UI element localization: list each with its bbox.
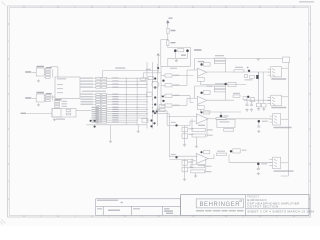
- wire ch3 out b: [226, 118, 271, 120]
- resistor bus row C2 B: [102, 111, 107, 113]
- wire bus row B1 a: [94, 96, 95, 98]
- wire matrix feed top: [103, 70, 159, 72]
- capacitor ch2 feedback C: [214, 86, 225, 89]
- wire bus row C6 b: [107, 119, 137, 121]
- transistor ch3 bias: [200, 111, 202, 113]
- wire bus row B1 b: [107, 96, 147, 98]
- frame zone number bottom 3: [91, 216, 93, 217]
- resistor ch1 series R out: [234, 70, 244, 72]
- value R32: [62, 106, 68, 107]
- bus junction: [147, 120, 148, 121]
- polarized cap lower a: [150, 119, 152, 121]
- resistor R201: [167, 28, 169, 33]
- frame zone letter left 3: [8, 93, 9, 95]
- label jack ch1: [271, 78, 286, 79]
- wire ch1 input stub b: [161, 84, 165, 86]
- wire lower link: [87, 124, 147, 126]
- frame zone number top 5: [158, 6, 160, 7]
- cap cluster left 2: [94, 120, 96, 122]
- polarized cap at bus y104.5: [154, 103, 156, 105]
- resistor R203: [178, 49, 184, 52]
- label ch1 input A: [173, 75, 179, 76]
- resistor bus row B2 B: [102, 99, 107, 101]
- frame zone tick bottom 7: [242, 215, 244, 217]
- resistor bus row C1 B: [102, 109, 107, 111]
- frame zone letter left 1: [8, 23, 9, 25]
- wire ch4 fb left: [191, 159, 193, 168]
- wire ch3 jack to bus: [281, 118, 289, 120]
- wire ch2 fb left leg: [194, 86, 196, 98]
- wire ch3 cap drop: [258, 123, 260, 127]
- frame zone number top 3: [91, 6, 93, 7]
- ground ch3 out: [257, 130, 260, 133]
- corner fold mark top-left: [2, 2, 6, 6]
- ground ch1 e2: [262, 108, 265, 111]
- resistor ch2 below: [224, 129, 234, 132]
- resistor bus row A0 A: [96, 77, 101, 79]
- mid bus junction: [136, 119, 139, 122]
- ground stage2: [37, 103, 40, 106]
- frame zone tick right 2: [309, 75, 311, 77]
- frame zone letter right 6: [309, 198, 310, 200]
- frame zone tick right 4: [309, 145, 311, 147]
- wire bus row B3 b: [107, 101, 147, 103]
- label ch4 cap: [261, 163, 267, 164]
- resistor R22 input stage 2: [46, 100, 51, 102]
- transistor Q202: [186, 49, 189, 52]
- value label bus row A0: [112, 77, 118, 78]
- wire ch4 lower in: [193, 160, 196, 162]
- bus junction: [147, 101, 148, 102]
- wire stage3 out: [76, 110, 92, 112]
- wire Q202 emitter: [187, 52, 189, 58]
- frame zone number top 4: [124, 6, 126, 7]
- wire ch1 drop a: [257, 72, 259, 75]
- wire bus row C6 a: [96, 119, 100, 121]
- resistor ch1 input B: [165, 84, 172, 87]
- wire bus row B2 b: [107, 98, 147, 100]
- value label bus row A1: [112, 80, 118, 81]
- label ch1 cluster: [245, 79, 253, 80]
- svg-text:SHEET 2 OF 4 SHEETS MARCH 13: SHEET 2 OF 4 SHEETS MARCH 13 1996: [247, 210, 314, 214]
- electrolytic cap ch1 input: [162, 79, 164, 81]
- wire bus row C3 b: [107, 113, 147, 115]
- resistor bus row B4 A: [96, 104, 101, 106]
- value label bus row C2: [112, 111, 118, 112]
- frame zone tick top 5: [175, 6, 177, 8]
- label R202: [171, 42, 176, 43]
- wire emitter rail: [168, 57, 188, 59]
- labels R10-R13: [46, 67, 52, 68]
- behringer registered mark: [240, 200, 242, 202]
- frame zone tick bottom 6: [209, 215, 211, 217]
- valve circle housing: [147, 92, 152, 96]
- frame zone number top 7: [225, 6, 227, 7]
- ground matrix 2: [137, 130, 140, 133]
- net label bus row A3 left: [81, 87, 94, 88]
- resistor ch2 mute load: [250, 98, 255, 102]
- checked cell text: [133, 208, 140, 209]
- op-amp ch1 IC1A: [197, 68, 207, 76]
- frame zone tick right 1: [309, 40, 311, 42]
- wire ch2 minus in: [187, 97, 197, 99]
- wire ch2 to amp plus: [172, 95, 190, 97]
- frame zone number top 1: [23, 6, 25, 7]
- mid bus junction: [125, 80, 128, 83]
- label ch3 chain b: [188, 134, 193, 135]
- wire bus row C2 a: [96, 111, 100, 113]
- wire ch4 jack to bus: [281, 162, 289, 164]
- wire ch3 fb left: [191, 119, 193, 131]
- op-amp ch4 IC2B: [196, 154, 208, 164]
- capacitor ch1 feedback C: [214, 58, 225, 61]
- resistor R32 mid stage: [55, 106, 60, 108]
- date cell value: [164, 210, 173, 211]
- wire supply vertical: [167, 25, 169, 28]
- resistor pair left of cap: [148, 77, 154, 80]
- wire ch4 out jog2: [228, 154, 230, 162]
- resistor R33: [66, 110, 71, 112]
- label ch2 input B: [173, 105, 179, 106]
- wire: [44, 68, 45, 70]
- net label bus row B4 left: [81, 104, 94, 105]
- value label bus row B4: [112, 104, 118, 105]
- label op-amp ch3: [198, 125, 205, 126]
- resistor bus lower: [142, 119, 148, 123]
- mute network ch1: [228, 82, 236, 86]
- wire input R: [32, 97, 37, 99]
- mid bus junction: [136, 106, 139, 109]
- wire trunk ch34 b: [168, 114, 170, 158]
- value label bus row B1: [112, 96, 118, 97]
- capacitor ch4 feedback C: [191, 170, 205, 173]
- wire ch2 minus jog: [186, 98, 188, 105]
- label ch4 input: [171, 154, 176, 155]
- transistor ch2 bias: [200, 92, 202, 94]
- mid bus junction: [125, 100, 128, 103]
- label ch1 series R: [235, 67, 243, 68]
- net label bus row B2 left: [81, 99, 94, 100]
- title text divider: [245, 195, 247, 216]
- label U1B: [37, 92, 45, 94]
- resistor bus row C3 A: [96, 113, 101, 115]
- net label bus row A1 left: [81, 80, 94, 81]
- frame zone number bottom 6: [192, 216, 194, 217]
- frame zone letter right 2: [309, 58, 310, 60]
- resistor bus row A0 B: [102, 77, 107, 79]
- label INPUT L: [25, 71, 31, 72]
- value label bus row C0: [112, 107, 118, 108]
- resistor ch2 mute load b: [243, 97, 247, 100]
- op-amp U1A body: [36, 68, 44, 76]
- transistor ch2 mute: [247, 96, 249, 98]
- resistor bus row C4 B: [102, 115, 107, 117]
- resistor ch1 bias: [204, 62, 211, 66]
- file name text outside frame top-right: [299, 1, 314, 3]
- resistor bus row C5 B: [102, 117, 107, 119]
- resistor ch2 input A: [165, 94, 172, 97]
- mid bus junction: [136, 95, 139, 98]
- bus junction: [147, 109, 148, 110]
- wire right loop: [190, 48, 192, 67]
- ground ch2 a: [245, 108, 248, 111]
- svg-text:OUTPUT SECTION: OUTPUT SECTION: [247, 205, 278, 209]
- resistor bus row B1 A: [96, 96, 101, 98]
- transistor ch4 bias: [200, 151, 202, 153]
- wire ch3 lower jog: [189, 121, 191, 125]
- frame zone number bottom 9: [293, 216, 295, 217]
- ground ch4 fb: [194, 175, 197, 178]
- transistor ch3 mute: [258, 120, 261, 123]
- net label bus row B1 left: [81, 96, 94, 97]
- label ch3 fb a: [207, 129, 213, 130]
- frame zone letter right 4: [309, 128, 310, 130]
- label ch4 fb b: [206, 171, 212, 172]
- op-amp ch3 IC2A: [196, 114, 208, 124]
- resistor R202: [167, 41, 169, 46]
- frame zone tick top 4: [141, 6, 143, 8]
- wire: [167, 33, 169, 39]
- frame zone tick right 5: [309, 180, 311, 182]
- wire ch1 lower drop: [199, 81, 201, 84]
- wire ch1 fb right leg: [225, 64, 227, 72]
- label op-amp ch4: [198, 164, 205, 165]
- wire bus row A0 b: [107, 77, 147, 79]
- wire bus top: [157, 54, 159, 73]
- electrolytic cap ch3 input: [175, 124, 177, 126]
- resistor R30 mid stage: [55, 101, 60, 103]
- frame zone number bottom 4: [124, 216, 126, 217]
- label power bottom: [170, 68, 177, 69]
- frame zone tick left 5: [8, 180, 10, 182]
- resistor ch4 chain a: [182, 161, 188, 166]
- transistor ch4 upper: [230, 150, 232, 152]
- resistor R34: [66, 113, 71, 115]
- wire bus row C7 a: [96, 121, 100, 123]
- cap bus top: [154, 77, 156, 79]
- ground ch4 out: [257, 172, 260, 175]
- transistor ch1 out stage: [224, 83, 227, 86]
- wire bus row A3 a: [94, 86, 95, 88]
- polarized cap bus cluster c: [154, 112, 156, 114]
- wire ch1 to amp plus: [172, 75, 194, 77]
- resistor right of bus b: [159, 109, 165, 112]
- wire stage1 down to block: [57, 67, 59, 77]
- resistor bus row A1 B: [102, 80, 107, 82]
- frame zone letter right 1: [309, 23, 310, 25]
- wire ch2 input stub b: [161, 105, 165, 107]
- wire ch1 fb left leg: [194, 58, 196, 70]
- bus junction: [152, 94, 153, 95]
- text inside U3 b: [57, 88, 63, 89]
- net label bus row B3 left: [81, 101, 94, 102]
- mid bus junction: [136, 112, 139, 115]
- resistor ch2 bias: [204, 91, 211, 95]
- resistor bus row B0 B: [102, 93, 107, 95]
- resistor bus row C0 A: [96, 107, 101, 109]
- behringer address line: [196, 210, 244, 211]
- wire ch3 chain drop: [184, 125, 186, 143]
- wire feed box drop: [142, 73, 144, 78]
- wire ch4 out jog: [213, 154, 215, 158]
- wire input L: [32, 71, 37, 73]
- net label bus row C7 left: [92, 121, 99, 122]
- value R30: [62, 101, 68, 102]
- wire bus row C2 b: [107, 111, 147, 113]
- wire ch3 lower in: [190, 120, 196, 122]
- frame zone tick bottom 3: [108, 215, 110, 217]
- feedback network box stage3: [52, 109, 76, 118]
- wire branch left: [161, 39, 168, 41]
- wire bus row A1 a: [94, 80, 95, 82]
- wire ch1 out b: [244, 71, 271, 73]
- wire bus row C4 a: [96, 115, 100, 117]
- frame zone number bottom 1: [23, 216, 25, 217]
- wire ch3 fb right: [206, 119, 208, 137]
- frame zone letter left 2: [8, 58, 9, 60]
- wire bus row B2 a: [94, 98, 95, 100]
- corner fold mark bottom-left: [0, 219, 6, 225]
- bus mid line 2: [136, 78, 138, 125]
- wire left channel trunk: [160, 66, 162, 105]
- wire bus row C4 b: [107, 115, 147, 117]
- wire ch3 gnd drop: [196, 137, 198, 145]
- label ch3 fb b: [207, 135, 213, 136]
- label jack ch4: [274, 170, 294, 171]
- mid bus junction: [125, 93, 128, 96]
- wire ch1 top rail: [195, 57, 283, 59]
- wire ch2 plus in: [190, 101, 194, 103]
- label trunk feed a: [156, 109, 161, 110]
- resistor ch4 feedback R: [191, 165, 205, 168]
- mid bus junction: [136, 83, 139, 86]
- net label bus row C3 left: [92, 113, 99, 114]
- wire ch3 in lower: [167, 124, 190, 126]
- label ch2 out stage: [224, 115, 229, 116]
- polarized cap trunk a: [162, 95, 164, 97]
- wire ch2 lower drop: [199, 109, 201, 112]
- capacitor ch1 e2: [262, 103, 266, 107]
- capacitor ch3 feedback C: [192, 134, 206, 137]
- label matrix feed: [115, 67, 125, 68]
- resistor bus row A2 A: [96, 83, 101, 85]
- bus junction: [152, 104, 153, 105]
- labels R20-R22: [46, 93, 52, 94]
- resistor ch2 feedback R: [214, 89, 225, 92]
- wire ch4 out a: [208, 158, 214, 160]
- bus line 2: [151, 62, 153, 129]
- wire ch1 drop b: [258, 72, 260, 103]
- polarized cap bus cluster a: [152, 110, 154, 112]
- resistor ch3 series R out: [216, 117, 226, 119]
- resistor ch1 input A: [165, 74, 172, 77]
- bus junction: [152, 99, 153, 100]
- wire ch4 chain drop: [184, 159, 186, 177]
- net label bus row C4 left: [92, 115, 99, 116]
- frame zone letter left 6: [8, 198, 9, 200]
- ground ch1 e1: [257, 107, 260, 110]
- frame zone number top 6: [192, 6, 194, 7]
- value label bus row C1: [112, 109, 118, 110]
- net label bus row C5 left: [92, 117, 99, 118]
- wire ch2 input stub a: [161, 95, 165, 97]
- resistor bus row C4 A: [96, 115, 101, 117]
- wire trunk feed b: [155, 113, 169, 115]
- frame zone tick top 8: [276, 6, 278, 8]
- net arrow bus top: [157, 54, 159, 56]
- bus junction: [147, 113, 148, 114]
- mute network box ch2: [217, 119, 235, 127]
- output jack ch3 PHONES3: [270, 114, 281, 125]
- resistor ch4 series R out: [217, 153, 227, 155]
- wire ch1 to amp minus: [172, 84, 187, 86]
- dark component ch1: [256, 75, 259, 79]
- resistor R11 input stage 1: [46, 71, 51, 73]
- label U2A: [55, 99, 62, 100]
- output jack ch2 PHONES2: [268, 95, 282, 105]
- frame zone number bottom 5: [158, 216, 160, 217]
- frame zone number top 9: [293, 6, 295, 7]
- net label bus row C0 left: [92, 107, 99, 108]
- frame zone letter right 3: [309, 93, 310, 95]
- wire bus row B3 a: [94, 101, 95, 103]
- wire bus row C1 b: [107, 109, 147, 111]
- frame zone number top 8: [259, 6, 261, 7]
- resistor bus row B3 A: [96, 101, 101, 103]
- resistor bus row C2 A: [96, 111, 101, 113]
- wire trunk feed a: [155, 110, 167, 112]
- label supply section: [169, 18, 173, 19]
- frame zone tick bottom 2: [74, 215, 76, 217]
- resistor bus row C7 B: [102, 121, 107, 123]
- date cell value2: [166, 213, 173, 214]
- frame zone tick left 4: [8, 145, 10, 147]
- wire bus row B0 b: [107, 93, 147, 95]
- value label bus row B3: [112, 101, 118, 102]
- ground supply: [175, 59, 178, 62]
- transistor ch2 out stage: [220, 115, 223, 118]
- capacitor ch1 e1: [256, 103, 260, 107]
- resistor bus row B1 B: [102, 96, 107, 98]
- label +15V net: [194, 49, 202, 51]
- net arrow +15V supply top: [167, 21, 170, 26]
- wire bus row B4 b: [107, 103, 147, 105]
- wire stage1 right drop: [52, 69, 54, 77]
- wire bus row B0 a: [94, 93, 95, 95]
- wire bus row A2 b: [107, 83, 147, 85]
- wire ch2 down: [220, 112, 222, 115]
- resistor bus row C3 B: [102, 113, 107, 115]
- text inside U3 a: [57, 84, 63, 85]
- wire ch2 fb rail: [195, 85, 226, 87]
- node supply A: [167, 39, 168, 40]
- behringer logo box: [196, 199, 243, 208]
- revision mark: [121, 202, 124, 203]
- value label bus row C6: [112, 119, 118, 120]
- wire: [44, 74, 45, 76]
- label INPUT R: [25, 97, 31, 98]
- resistor ch3 bias: [203, 111, 209, 114]
- wire ch4 gnd drop: [195, 173, 197, 175]
- net label bus row C6 left: [92, 119, 99, 120]
- wire: [167, 46, 169, 48]
- op-amp ch1 lower net: [197, 78, 204, 82]
- bus junction: [147, 78, 148, 79]
- value label bus row C5: [112, 117, 118, 118]
- net label bus row C2 left: [92, 111, 99, 112]
- frame zone letter left 5: [8, 163, 9, 165]
- frame zone tick top 6: [209, 6, 211, 8]
